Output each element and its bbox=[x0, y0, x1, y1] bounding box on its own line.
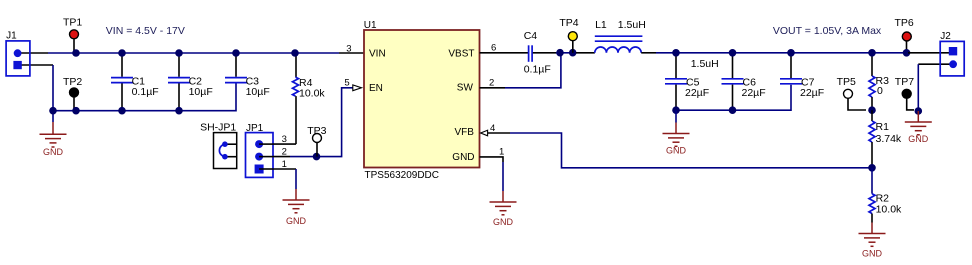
pin arrow VFB input bbox=[481, 130, 488, 136]
svg-text:TPS563209DDC: TPS563209DDC bbox=[365, 170, 439, 181]
svg-text:VOUT = 1.05V, 3A Max: VOUT = 1.05V, 3A Max bbox=[773, 25, 882, 37]
svg-text:TP1: TP1 bbox=[63, 16, 82, 28]
capacitor C3 bbox=[225, 53, 270, 98]
svg-text:10.0k: 10.0k bbox=[299, 88, 325, 100]
wire JP1 pin1 to ground bbox=[273, 169, 296, 189]
node junction TP4 bbox=[569, 49, 577, 57]
node junction TP7/J2 bbox=[915, 107, 923, 115]
connector J1 bbox=[6, 31, 30, 76]
svg-text:GND: GND bbox=[666, 146, 687, 156]
svg-text:1.5uH: 1.5uH bbox=[618, 19, 646, 31]
svg-text:TP5: TP5 bbox=[837, 76, 856, 88]
test point TP7 bbox=[895, 76, 914, 110]
ground GND2 (JP1) bbox=[283, 189, 310, 226]
resistor R3 bbox=[869, 53, 889, 110]
wire VBST pin to C4 bbox=[480, 52, 529, 54]
test point TP2 bbox=[63, 76, 82, 111]
svg-text:22µF: 22µF bbox=[800, 87, 824, 99]
svg-text:J2: J2 bbox=[940, 31, 951, 42]
svg-text:6: 6 bbox=[491, 43, 496, 54]
svg-text:GND: GND bbox=[286, 216, 307, 226]
svg-text:1.5uH: 1.5uH bbox=[691, 58, 719, 70]
svg-text:TP2: TP2 bbox=[63, 76, 82, 88]
wire JP1 pin3 to R4 bbox=[273, 143, 296, 145]
svg-text:2: 2 bbox=[489, 78, 494, 89]
wire VOUT to J2 pin1 bbox=[908, 52, 949, 54]
svg-text:4: 4 bbox=[490, 123, 495, 134]
node junction C5 top bbox=[672, 49, 680, 57]
svg-text:22µF: 22µF bbox=[685, 87, 709, 99]
test point TP5 bbox=[837, 76, 866, 110]
node junction C2 bottom bbox=[175, 107, 183, 115]
test point TP1 bbox=[63, 16, 82, 53]
wire J2 pin2 to ground bbox=[918, 64, 953, 111]
test point TP3 bbox=[307, 125, 326, 157]
inductor L1 bbox=[576, 19, 656, 53]
wire GND pin U1 to ground bbox=[480, 157, 504, 191]
svg-text:0.1µF: 0.1µF bbox=[132, 86, 159, 98]
svg-text:0: 0 bbox=[877, 85, 883, 97]
capacitor C5 bbox=[665, 53, 709, 110]
capacitor C4 bbox=[524, 30, 551, 75]
svg-text:SW: SW bbox=[457, 83, 474, 94]
svg-text:10.0k: 10.0k bbox=[876, 204, 902, 216]
wire SW pin up to node bbox=[480, 53, 561, 88]
resistor R1 bbox=[869, 110, 902, 168]
test point TP4 bbox=[559, 17, 578, 53]
svg-text:10µF: 10µF bbox=[246, 86, 270, 98]
svg-text:J1: J1 bbox=[6, 31, 17, 42]
svg-text:VIN = 4.5V - 17V: VIN = 4.5V - 17V bbox=[106, 25, 185, 37]
resistor R2 bbox=[869, 168, 902, 223]
svg-text:1: 1 bbox=[499, 147, 504, 158]
wire GND rail lower-right bbox=[676, 85, 791, 111]
svg-text:3.74k: 3.74k bbox=[876, 133, 902, 145]
ground GND4 (U1) bbox=[490, 191, 517, 227]
svg-text:C4: C4 bbox=[524, 30, 538, 42]
resistor R4 bbox=[293, 53, 326, 144]
capacitor C2 bbox=[168, 53, 213, 111]
svg-text:R1: R1 bbox=[876, 121, 890, 133]
svg-text:GND: GND bbox=[493, 217, 514, 227]
node junction C1 bottom bbox=[118, 107, 126, 115]
svg-text:VFB: VFB bbox=[455, 127, 475, 138]
wire JP1 pin2 to EN bbox=[273, 88, 353, 157]
ground GND6 (R2) bbox=[859, 223, 886, 259]
svg-text:VBST: VBST bbox=[448, 48, 474, 59]
node junction TP2/GND rail bbox=[72, 107, 80, 115]
connector JP1 bbox=[246, 123, 274, 178]
capacitor C6 bbox=[722, 53, 766, 110]
svg-text:L1: L1 bbox=[595, 19, 607, 31]
ground GND5 (TP7/J2) bbox=[905, 111, 932, 144]
wire C4 to SW node bbox=[533, 52, 556, 54]
node junction R4 top bbox=[291, 49, 299, 57]
ground GND3 (C5) bbox=[663, 110, 690, 155]
node junction R3 bottom / TP5 bbox=[868, 106, 876, 114]
svg-text:GND: GND bbox=[452, 152, 474, 163]
svg-text:EN: EN bbox=[369, 83, 383, 94]
node junction C3 top bbox=[232, 49, 240, 57]
node junction TP3 bbox=[313, 153, 321, 161]
capacitor C1 bbox=[111, 53, 159, 111]
svg-text:5: 5 bbox=[344, 78, 349, 89]
svg-text:TP4: TP4 bbox=[559, 17, 578, 29]
svg-text:TP7: TP7 bbox=[895, 76, 914, 88]
svg-text:3: 3 bbox=[346, 44, 351, 55]
node junction R3 top bbox=[868, 49, 876, 57]
svg-text:GND: GND bbox=[862, 249, 883, 259]
svg-text:22µF: 22µF bbox=[742, 87, 766, 99]
svg-text:GND: GND bbox=[43, 147, 64, 157]
node junction J1 pin2/GND rail bbox=[49, 107, 57, 115]
pin arrow EN input bbox=[353, 85, 362, 91]
svg-text:SH-JP1: SH-JP1 bbox=[200, 122, 236, 134]
capacitor C7 bbox=[780, 53, 824, 99]
node junction C6 bottom bbox=[729, 106, 737, 114]
wire VFB net bbox=[488, 133, 872, 168]
jumper shunt SH-JP1 bbox=[200, 122, 237, 169]
node junction C1 top bbox=[118, 49, 126, 57]
node junction C7 top bbox=[787, 49, 795, 57]
svg-text:10µF: 10µF bbox=[189, 86, 213, 98]
wire VOUT rail bbox=[656, 52, 908, 54]
node junction C5 bottom bbox=[672, 106, 680, 114]
ground GND1 (left) bbox=[40, 111, 67, 158]
node junction SW/C4 bbox=[556, 49, 564, 57]
node junction C6 top bbox=[729, 49, 737, 57]
wire VIN rail top bbox=[18, 52, 364, 54]
svg-text:TP6: TP6 bbox=[895, 17, 914, 29]
op-amp U1 TPS563209DDC body bbox=[364, 20, 480, 181]
svg-text:GND: GND bbox=[908, 134, 929, 144]
node junction R1/R2/VFB bbox=[868, 164, 876, 172]
node junction TP6/VOUT bbox=[903, 49, 911, 57]
node junction TP1/VIN bbox=[72, 49, 80, 57]
node junction C2 top bbox=[175, 49, 183, 57]
connector J2 bbox=[940, 31, 964, 76]
svg-text:0.1µF: 0.1µF bbox=[524, 63, 551, 75]
svg-text:VIN: VIN bbox=[369, 48, 386, 59]
wire GND rail lower-left bbox=[18, 65, 236, 111]
test point TP6 bbox=[895, 17, 914, 53]
